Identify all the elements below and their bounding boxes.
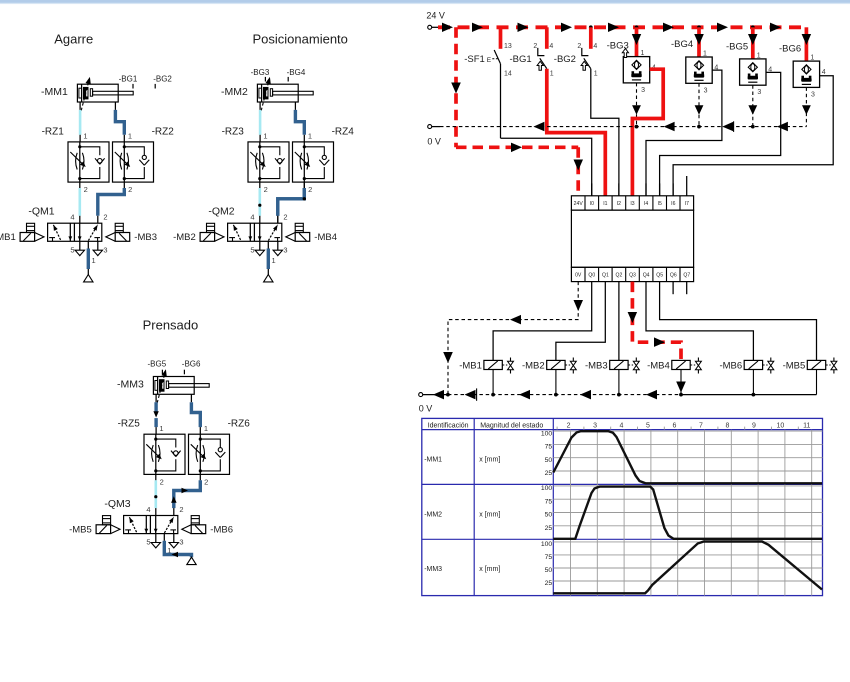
- svg-text:Posicionamiento: Posicionamiento: [253, 32, 348, 47]
- valve solenoid coil -MB5: [783, 358, 837, 395]
- cylinder -MM1 port stubs: [80, 102, 115, 110]
- proximity sensor -BG4: [671, 27, 718, 94]
- svg-text:-MM2: -MM2: [424, 511, 442, 518]
- svg-text:3: 3: [757, 89, 761, 96]
- wire -BG4 port 3 to 0V rail: [695, 83, 704, 126]
- svg-text:0V: 0V: [575, 273, 582, 279]
- svg-text:5: 5: [646, 423, 650, 430]
- wire -MM1 rod-side port to -RZ2: [115, 110, 124, 142]
- svg-text:-BG5: -BG5: [148, 360, 167, 369]
- wire -MM2 cap-side port to -RZ3: [259, 110, 262, 142]
- svg-text:Q6: Q6: [670, 273, 677, 279]
- state diagram table frame: [422, 418, 823, 595]
- svg-text:3: 3: [704, 87, 708, 94]
- wire -BG5 port 4 to PLC input I5: [660, 72, 781, 196]
- svg-text:2: 2: [533, 43, 537, 50]
- svg-text:4: 4: [822, 69, 826, 76]
- svg-text:-RZ4: -RZ4: [332, 126, 355, 137]
- state trace -MM1: [553, 431, 822, 483]
- svg-text:24V: 24V: [574, 201, 584, 207]
- svg-text:1: 1: [308, 132, 312, 141]
- pushbutton -SF1 (NO contact 13-14): [464, 27, 512, 138]
- svg-text:7: 7: [699, 423, 703, 430]
- PLC input terminal labels 24V I0-I7: [574, 201, 689, 207]
- label -RZ5: [118, 419, 141, 430]
- svg-text:2: 2: [160, 478, 164, 487]
- current arrows on 0V sensor rail: [533, 121, 788, 132]
- svg-text:8: 8: [725, 423, 729, 430]
- svg-text:-MM1: -MM1: [41, 86, 68, 98]
- svg-text:14: 14: [504, 70, 512, 77]
- svg-text:4: 4: [593, 43, 597, 50]
- svg-text:2: 2: [103, 213, 107, 222]
- svg-text:1: 1: [128, 132, 132, 141]
- proximity sensor -BG5: [726, 27, 772, 96]
- svg-text:3: 3: [641, 87, 645, 94]
- valve -QM1 port number labels 4 2 5 3 1: [70, 213, 107, 265]
- valve solenoid coil -MB3: [585, 358, 639, 395]
- svg-text:3: 3: [283, 245, 287, 254]
- wire -BG6 port 4 to PLC input I6: [673, 76, 833, 196]
- svg-text:4: 4: [549, 43, 553, 50]
- compressed air supply for -QM1: [84, 241, 93, 282]
- svg-text:75: 75: [545, 444, 553, 451]
- svg-text:2: 2: [567, 423, 571, 430]
- svg-text:-MB4: -MB4: [647, 361, 670, 372]
- svg-text:Identificación: Identificación: [428, 422, 469, 429]
- svg-text:-QM2: -QM2: [208, 206, 234, 218]
- svg-text:-BG4: -BG4: [287, 68, 306, 77]
- current direction arrows on 24 V rail: [442, 23, 781, 32]
- svg-text:I7: I7: [685, 201, 689, 207]
- svg-text:-BG3: -BG3: [251, 68, 270, 77]
- svg-text:-MM1: -MM1: [424, 456, 442, 463]
- svg-text:1: 1: [703, 51, 707, 58]
- valve -QM1 exhaust port 3 silencer: [93, 241, 102, 255]
- svg-text:2: 2: [128, 185, 132, 194]
- svg-text:50: 50: [545, 457, 553, 464]
- svg-text:-RZ6: -RZ6: [228, 419, 251, 430]
- label -RZ3: [222, 126, 245, 137]
- svg-text:1: 1: [594, 70, 598, 77]
- svg-text:100: 100: [541, 485, 553, 492]
- svg-text:-BG6: -BG6: [182, 360, 201, 369]
- label -QM2: [208, 206, 234, 218]
- table row label -MM2: [424, 511, 500, 518]
- 5/2-way double solenoid valve -QM3 body: [124, 516, 178, 534]
- red dashed branch from 24V rail to PLC 24V terminal: [451, 27, 583, 196]
- cylinder -MM3 adjustable-cushioning arrow: [157, 369, 167, 403]
- port labels 1/2 of -RZ1 and -RZ2: [83, 132, 132, 195]
- svg-text:-RZ3: -RZ3: [222, 126, 245, 137]
- svg-text:x [mm]: x [mm]: [479, 511, 500, 518]
- svg-text:-MB6: -MB6: [210, 524, 233, 535]
- compressed air supply for -QM3: [164, 534, 196, 565]
- valve -QM3 exhaust port 5 silencer: [151, 534, 160, 548]
- svg-text:2: 2: [204, 478, 208, 487]
- label -QM1: [28, 206, 54, 218]
- svg-text:E: E: [487, 57, 492, 64]
- svg-text:3: 3: [593, 423, 597, 430]
- wire Q5 to coil -MB5: [660, 282, 817, 361]
- solenoid -MB2 (left) with manual override and pilot: [200, 223, 224, 241]
- flow control valve -RZ5: [144, 434, 185, 474]
- svg-text:-MM3: -MM3: [424, 566, 442, 573]
- svg-text:2: 2: [308, 185, 312, 194]
- svg-text:2: 2: [577, 43, 581, 50]
- svg-text:I4: I4: [644, 201, 648, 207]
- svg-text:-BG6: -BG6: [779, 44, 801, 55]
- sensor position mark -BG5: [148, 360, 167, 375]
- cylinder -MM2 body: [257, 84, 313, 102]
- svg-text:-RZ1: -RZ1: [42, 126, 65, 137]
- wire Q4 to coil -MB6: [646, 282, 753, 361]
- sensor position mark -BG1: [119, 74, 138, 88]
- svg-text:-BG4: -BG4: [671, 39, 693, 50]
- svg-text:24 V: 24 V: [426, 11, 445, 21]
- cylinder -MM1 body: [77, 84, 133, 102]
- label -RZ2: [152, 126, 175, 137]
- svg-text:100: 100: [541, 541, 553, 548]
- svg-text:-MM3: -MM3: [117, 379, 144, 391]
- svg-text:5: 5: [70, 245, 74, 254]
- flow control valve -RZ1: [68, 142, 109, 182]
- svg-text:2: 2: [283, 213, 287, 222]
- wire Q2 to coil -MB3: [618, 282, 620, 361]
- svg-text:0 V: 0 V: [427, 136, 441, 146]
- svg-text:-BG2: -BG2: [554, 54, 576, 65]
- svg-text:9: 9: [752, 423, 756, 430]
- svg-text:Prensado: Prensado: [143, 318, 199, 333]
- svg-text:-MB1: -MB1: [0, 232, 16, 243]
- state trace -MM2: [553, 487, 822, 539]
- svg-text:4: 4: [70, 213, 74, 222]
- cylinder -MM2 adjustable-cushioning arrow: [261, 77, 271, 111]
- svg-text:10: 10: [777, 423, 785, 430]
- svg-text:4: 4: [620, 423, 624, 430]
- wire Q1 to coil -MB2: [556, 282, 605, 361]
- svg-text:1: 1: [641, 50, 645, 57]
- svg-text:-BG1: -BG1: [119, 74, 138, 83]
- svg-text:13: 13: [504, 43, 512, 50]
- actuation arrow at -BG3: [622, 49, 628, 58]
- svg-text:Q1: Q1: [602, 273, 609, 279]
- svg-text:3: 3: [103, 245, 107, 254]
- svg-text:6: 6: [673, 423, 677, 430]
- svg-text:2: 2: [179, 505, 183, 514]
- svg-text:I0: I0: [590, 201, 594, 207]
- svg-text:0 V: 0 V: [419, 404, 433, 414]
- svg-text:I2: I2: [617, 201, 621, 207]
- svg-text:1: 1: [810, 55, 814, 62]
- valve -QM2 exhaust port 5 silencer: [255, 241, 264, 255]
- port labels 1/2 of -RZ5 and -RZ6: [159, 424, 208, 487]
- svg-text:Q5: Q5: [656, 273, 663, 279]
- svg-text:2: 2: [264, 185, 268, 194]
- svg-text:75: 75: [545, 498, 553, 505]
- svg-text:50: 50: [545, 512, 553, 519]
- svg-text:50: 50: [545, 567, 553, 574]
- wire -RZ4 to -QM2 port 2: [278, 182, 306, 223]
- solenoid -MB5 (left) with manual override and pilot: [96, 516, 120, 534]
- svg-text:4: 4: [250, 213, 254, 222]
- label -RZ4: [332, 126, 355, 137]
- svg-text:1: 1: [272, 256, 276, 265]
- valve -QM1 exhaust port 5 silencer: [75, 241, 84, 255]
- cylinder -MM2 port stubs: [260, 102, 295, 110]
- wire -RZ2 to -QM1 port 2: [98, 182, 125, 223]
- label -MB1: [0, 232, 16, 243]
- proximity sensor -BG3: [607, 27, 656, 94]
- cylinder -MM1 adjustable-cushioning arrow: [81, 77, 91, 111]
- PLC output terminal labels 0V Q0-Q7: [575, 273, 690, 279]
- svg-text:-MB3: -MB3: [585, 361, 608, 372]
- flow control valve -RZ2: [113, 142, 154, 182]
- svg-text:5: 5: [146, 538, 150, 547]
- valve -QM2 port number labels 4 2 5 3 1: [250, 213, 287, 265]
- svg-text:-MB4: -MB4: [314, 232, 337, 243]
- svg-text:3: 3: [811, 91, 815, 98]
- label -MB4: [314, 232, 337, 243]
- svg-text:-MB6: -MB6: [719, 361, 742, 372]
- solenoid -MB3 (right) with manual override and pilot: [106, 223, 130, 241]
- svg-text:-SF1: -SF1: [464, 54, 485, 65]
- svg-text:1: 1: [204, 424, 208, 433]
- time axis labels 2-11: [557, 423, 810, 430]
- svg-text:-MB2: -MB2: [522, 361, 545, 372]
- svg-text:1: 1: [263, 132, 267, 141]
- flow control valve -RZ4: [293, 142, 334, 182]
- section title Agarre: [54, 32, 93, 47]
- wire -BG6 port 3 to 0V rail: [802, 87, 811, 126]
- wire -MM2 rod-side port to -RZ4: [295, 110, 304, 142]
- compressed air supply for -QM2: [264, 241, 273, 282]
- svg-text:100: 100: [541, 430, 553, 437]
- top window bar: [0, 0, 850, 4]
- current arrows on bottom 0V rail: [433, 388, 657, 400]
- label -RZ1: [42, 126, 65, 137]
- svg-text:11: 11: [803, 423, 810, 430]
- label -MB2: [173, 232, 196, 243]
- wire -SF1 to PLC input I0: [501, 138, 592, 196]
- svg-text:2: 2: [84, 185, 88, 194]
- svg-text:Q2: Q2: [616, 273, 623, 279]
- svg-text:Q7: Q7: [683, 273, 690, 279]
- svg-text:25: 25: [545, 525, 553, 532]
- junction dots on 0V sensor rail: [635, 125, 755, 129]
- svg-text:5: 5: [250, 245, 254, 254]
- wire Q3 to coil -MB4 (energized): [628, 282, 681, 361]
- valve solenoid coil -MB1: [459, 358, 513, 395]
- wire Q0 to coil -MB1: [493, 282, 592, 361]
- wire -BG3 port 4 to PLC input I3 (energized): [632, 69, 663, 196]
- svg-text:-MM2: -MM2: [221, 86, 248, 98]
- 0 V sensor common rail: [427, 125, 806, 147]
- table header labels: [428, 422, 544, 429]
- label -MM3: [117, 379, 144, 391]
- svg-text:-MB5: -MB5: [783, 361, 806, 372]
- cylinder -MM3 body: [153, 377, 209, 395]
- port labels 1/2 of -RZ3 and -RZ4: [263, 132, 312, 195]
- label -MB5: [69, 524, 92, 535]
- valve -QM3 exhaust port 3 silencer: [169, 534, 178, 548]
- section title Posicionamiento: [253, 32, 348, 47]
- svg-text:-MB3: -MB3: [134, 232, 157, 243]
- svg-text:I1: I1: [603, 201, 607, 207]
- svg-text:-MB1: -MB1: [459, 361, 482, 372]
- wire -BG5 port 3 to 0V rail: [748, 85, 757, 126]
- valve solenoid coil -MB4: [647, 358, 701, 395]
- svg-text:4: 4: [146, 505, 150, 514]
- chart grid: [553, 430, 822, 596]
- 5/2-way double solenoid valve -QM2 body: [228, 223, 282, 241]
- svg-text:I6: I6: [671, 201, 675, 207]
- 24 V supply rail: [426, 11, 806, 30]
- solenoid -MB6 (right) with manual override and pilot: [182, 516, 206, 534]
- svg-text:-MB5: -MB5: [69, 524, 92, 535]
- label -MB6: [210, 524, 233, 535]
- svg-text:25: 25: [545, 580, 553, 587]
- label -MB3: [134, 232, 157, 243]
- wire PLC 0V terminal to bottom 0V rail: [443, 282, 583, 395]
- svg-text:-BG2: -BG2: [153, 74, 172, 83]
- svg-text:-BG5: -BG5: [726, 42, 748, 53]
- svg-text:-QM1: -QM1: [28, 206, 54, 218]
- state trace -MM3: [553, 542, 822, 594]
- svg-text:-RZ5: -RZ5: [118, 419, 141, 430]
- wire -RZ6 to -QM3 port 2: [171, 474, 200, 515]
- svg-text:Agarre: Agarre: [54, 32, 93, 47]
- svg-text:x [mm]: x [mm]: [479, 566, 500, 573]
- junction dots on bottom 0V rail: [446, 393, 755, 397]
- wire -BG2 to PLC input I2: [591, 69, 619, 196]
- valve solenoid coil -MB2: [522, 358, 576, 395]
- wire -BG3 port 3 to 0V rail: [632, 83, 641, 127]
- svg-text:Q4: Q4: [643, 273, 650, 279]
- section title Prensado: [143, 318, 199, 333]
- label -QM3: [104, 498, 130, 510]
- svg-text:-BG1: -BG1: [510, 54, 532, 65]
- bottom 0 V rail: [419, 393, 817, 414]
- wire -RZ5 to -QM3 port 4: [154, 474, 157, 515]
- table row label -MM3: [424, 566, 500, 573]
- cylinder -MM3 port stubs: [156, 394, 191, 402]
- sensor position mark -BG6: [182, 360, 201, 375]
- svg-text:3: 3: [179, 538, 183, 547]
- 5/2-way double solenoid valve -QM1 body: [48, 223, 102, 241]
- wire -BG4 port 4 to PLC input I4: [646, 70, 722, 196]
- svg-text:1: 1: [757, 52, 761, 59]
- label -MM1: [41, 86, 68, 98]
- solenoid -MB1 (left) with manual override and pilot: [20, 223, 44, 241]
- svg-text:x [mm]: x [mm]: [479, 456, 500, 463]
- svg-text:Q3: Q3: [629, 273, 636, 279]
- junction dots on 24 V rail: [589, 25, 755, 29]
- svg-text:-QM3: -QM3: [104, 498, 130, 510]
- flow control valve -RZ6: [189, 434, 230, 474]
- label -MM2: [221, 86, 248, 98]
- PLC controller U1 body: [571, 196, 693, 282]
- wire -MM3 cap-side port to -RZ5: [153, 402, 158, 434]
- svg-text:1: 1: [159, 424, 163, 433]
- PLC output stubs Q6 Q7: [673, 282, 687, 295]
- svg-text:-RZ2: -RZ2: [152, 126, 175, 137]
- svg-text:1: 1: [550, 70, 554, 77]
- label -RZ6: [228, 419, 251, 430]
- svg-text:75: 75: [545, 554, 553, 561]
- sensor position mark -BG2: [153, 74, 172, 88]
- proximity sensor -BG6: [779, 27, 826, 98]
- wire -MM1 cap-side port to -RZ1: [79, 110, 82, 142]
- valve solenoid coil -MB6: [719, 358, 773, 395]
- svg-text:-MB2: -MB2: [173, 232, 196, 243]
- valve -QM2 exhaust port 3 silencer: [273, 241, 282, 255]
- wire -BG1 to PLC input I1 (energized): [547, 69, 606, 196]
- flow control valve -RZ3: [248, 142, 289, 182]
- row axis value labels: [541, 430, 553, 587]
- svg-text:I5: I5: [658, 201, 662, 207]
- svg-text:1: 1: [83, 132, 87, 141]
- limit switch -BG2 (changeover contact): [554, 27, 598, 77]
- solenoid -MB4 (right) with manual override and pilot: [286, 223, 310, 241]
- wire -RZ1 to -QM1 port 4: [79, 182, 81, 223]
- valve -QM3 port number labels 4 2 5 3 1: [146, 505, 183, 555]
- PLC unconnected input stubs I0 I2 I4-I7 tops: [592, 176, 687, 196]
- svg-text:1: 1: [92, 256, 96, 265]
- limit switch -BG1 (changeover contact): [510, 27, 554, 77]
- svg-text:Magnitud del estado: Magnitud del estado: [480, 422, 543, 429]
- table row label -MM1: [424, 456, 500, 463]
- svg-text:I3: I3: [630, 201, 634, 207]
- svg-text:25: 25: [545, 470, 553, 477]
- svg-text:Q0: Q0: [588, 273, 595, 279]
- wire -RZ3 to -QM2 port 4: [258, 182, 261, 223]
- wire -MM3 rod-side port to -RZ6: [191, 402, 200, 434]
- sensor position mark -BG4: [287, 68, 306, 82]
- sensor position mark -BG3: [251, 68, 270, 82]
